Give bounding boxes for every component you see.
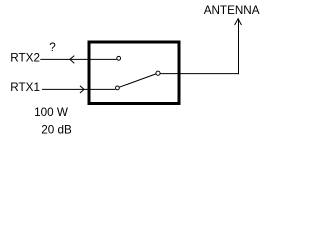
wire RTX1 to throw contact xyxy=(42,88,115,90)
wire antenna horizontal feed xyxy=(160,73,238,75)
svg-text:20 dB: 20 dB xyxy=(41,123,72,136)
switch throw contact circle RTX1 xyxy=(116,86,120,90)
svg-text:RTX1: RTX1 xyxy=(10,81,40,94)
switch box xyxy=(89,42,179,104)
wire RTX2 to throw contact xyxy=(40,58,116,60)
svg-text:RTX2: RTX2 xyxy=(10,52,40,65)
svg-text:100 W: 100 W xyxy=(34,106,68,119)
arrowhead toward RTX2 xyxy=(70,56,74,64)
arrowhead to antenna xyxy=(235,19,242,25)
switch blade (diagonal) xyxy=(119,74,156,87)
switch throw contact circle RTX2 xyxy=(117,56,121,60)
svg-text:ANTENNA: ANTENNA xyxy=(204,4,260,17)
arrowhead toward switch from RTX1 xyxy=(80,86,84,93)
switch common pole circle xyxy=(156,71,160,75)
wire antenna vertical xyxy=(238,19,240,74)
svg-text:?: ? xyxy=(49,41,56,54)
